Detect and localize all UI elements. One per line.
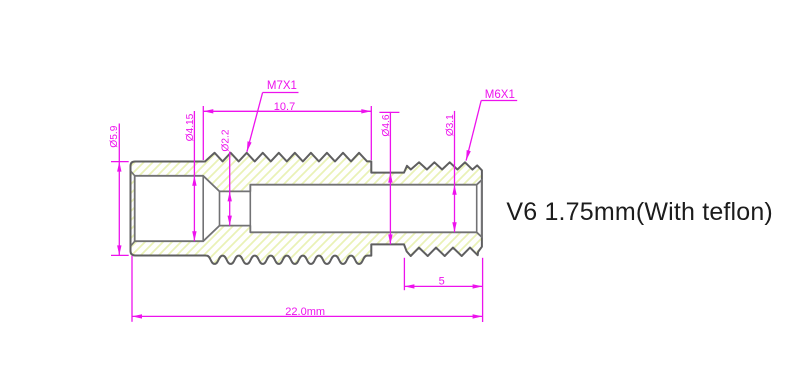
dia4.15 top arrow [192, 176, 196, 186]
5 right arrow [473, 284, 483, 288]
dia4.6 bottom arrow [388, 234, 392, 244]
bore edge: cone-to-neck [219, 191, 221, 225]
dim 22.0 left extension line [131, 256, 133, 322]
M6X1 leader line [466, 101, 481, 161]
dim dia3.1 line [454, 111, 456, 232]
svg-text:Ø5.9: Ø5.9 [109, 125, 120, 147]
svg-text:Ø4.15: Ø4.15 [185, 113, 196, 141]
dim dia5.9 bottom extension line [111, 254, 129, 256]
svg-text:V6 1.75mm(With teflon): V6 1.75mm(With teflon) [506, 198, 773, 226]
dim 5 / dim 22.0 shared right extension line [482, 258, 484, 322]
dia2.2 bottom arrow [228, 216, 232, 226]
svg-text:10.7: 10.7 [274, 101, 295, 113]
dia5.9 bottom arrow [117, 245, 121, 255]
dia4.6 top arrow [388, 173, 392, 183]
svg-text:Ø4.6: Ø4.6 [381, 114, 392, 136]
5 left arrow [404, 284, 414, 288]
svg-text:M6X1: M6X1 [485, 89, 515, 101]
dia3.1 top arrow [452, 185, 456, 195]
22.0 right arrow [473, 314, 483, 318]
M7X1 label underline [263, 92, 299, 94]
arrowheads [117, 109, 483, 318]
dia2.2 top arrow [228, 191, 232, 201]
bore edge: neck-to-main-bore step [249, 185, 251, 233]
bore edge: exit chamfer [476, 185, 478, 233]
dim dia4.15 line [193, 111, 195, 241]
10.7 left arrow [203, 109, 213, 113]
svg-text:5: 5 [439, 275, 445, 287]
bore edge: counterbore-to-cone [202, 176, 204, 241]
dim 22.0 line [132, 315, 483, 317]
dia4.15 bottom arrow [192, 231, 196, 241]
dim 5 left extension line [403, 258, 405, 290]
dim 10.7 right extension line [370, 106, 372, 160]
M7X1 leader arrow [247, 141, 252, 152]
dim dia4.6 top shoulder bar [379, 111, 399, 113]
22.0 left arrow [132, 314, 142, 318]
svg-text:M7X1: M7X1 [267, 80, 297, 92]
M7X1 leader line [247, 93, 263, 152]
dim 10.7 line [203, 110, 371, 112]
dim 5 line [404, 285, 482, 287]
dim dia5.9 line [118, 124, 120, 256]
bore entry chamfer bottom [131, 241, 135, 246]
dia5.9 top arrow [117, 162, 121, 172]
part body outline with section hatch [131, 153, 482, 264]
M6X1 label underline [481, 100, 517, 102]
dim 10.7 left extension line [202, 106, 204, 160]
dim dia5.9 top extension line [111, 161, 129, 163]
10.7 right arrow [361, 109, 371, 113]
dimension texts [109, 80, 515, 318]
svg-text:22.0mm: 22.0mm [285, 306, 325, 318]
svg-text:Ø2.2: Ø2.2 [221, 129, 232, 151]
svg-text:Ø3.1: Ø3.1 [445, 114, 456, 136]
dim dia4.6 line [389, 112, 391, 245]
dia3.1 bottom arrow [452, 222, 456, 232]
bore entry chamfer top [131, 171, 135, 176]
dim dia2.2 line [229, 152, 231, 226]
bore (white interior) [135, 176, 482, 241]
M6X1 leader arrow [466, 150, 471, 161]
